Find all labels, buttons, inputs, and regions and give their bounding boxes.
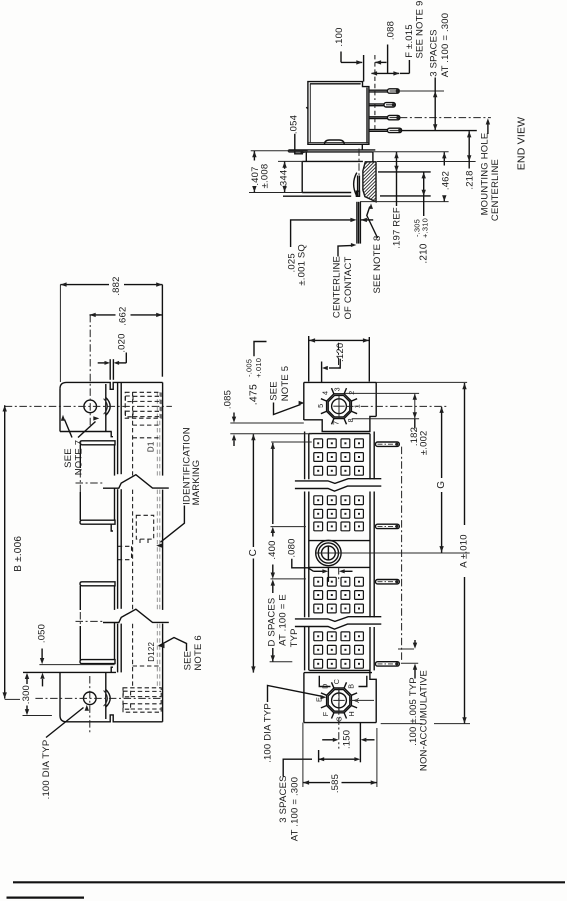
key centerline vertical (top key) <box>338 343 340 368</box>
identification marking hidden box <box>136 515 153 539</box>
side view mating face <box>162 382 164 476</box>
flange near extension <box>278 160 302 162</box>
svg-text:D122: D122 <box>147 641 156 661</box>
key centerline to right <box>346 405 447 407</box>
svg-text:.344: .344 <box>279 170 290 189</box>
svg-text:.120: .120 <box>335 343 346 362</box>
dim D SPACES AT .100 = E TYP <box>272 585 274 594</box>
pin tip centerline vertical <box>401 447 403 662</box>
dim .085 <box>230 422 303 424</box>
dim 3 SPACES AT .100 = .300 (front) <box>283 759 312 776</box>
svg-text:3: 3 <box>333 387 342 391</box>
svg-text:AT .100 = E: AT .100 = E <box>278 594 289 646</box>
svg-text:AT .100 = .300: AT .100 = .300 <box>289 777 300 842</box>
svg-text:MOUNTING HOLE: MOUNTING HOLE <box>480 133 491 216</box>
svg-text:2: 2 <box>347 390 356 394</box>
top cavity hidden outline D1 <box>125 392 161 418</box>
dim .197 REF <box>378 171 431 173</box>
svg-text:AT .100 = .300: AT .100 = .300 <box>440 13 451 78</box>
svg-text:B ±.006: B ±.006 <box>13 536 24 572</box>
hidden cavity lines full length <box>132 392 134 476</box>
svg-text:NOTE 7: NOTE 7 <box>74 440 85 476</box>
middle hidden hole box <box>118 546 132 559</box>
contact bulge bottom ear <box>106 689 111 707</box>
center hole section <box>309 540 370 542</box>
top ear step <box>111 432 113 437</box>
svg-text:7: 7 <box>331 421 340 425</box>
svg-text:.020: .020 <box>117 333 128 352</box>
svg-text:F: F <box>321 711 330 716</box>
dim .210 -.305 +.310 <box>380 195 431 197</box>
front view grid section walls <box>304 432 306 480</box>
dim B +-.006 <box>4 405 6 698</box>
front view bottom grid end <box>309 669 370 671</box>
svg-text:.050: .050 <box>36 624 47 643</box>
svg-text:.210: .210 <box>418 243 429 264</box>
svg-text:±.008: ±.008 <box>259 164 270 189</box>
bottom end extension to dim A <box>381 723 423 725</box>
svg-text:F ±.015: F ±.015 <box>404 24 415 58</box>
svg-text:.400: .400 <box>267 540 278 559</box>
body side tick <box>306 107 308 108</box>
pin centerline at break 1 <box>76 482 121 484</box>
top end extension to dim A <box>376 381 467 383</box>
svg-text:4: 4 <box>320 391 329 395</box>
side view break 1 <box>103 476 170 488</box>
identification leader <box>161 506 185 543</box>
svg-text:TYP: TYP <box>289 628 300 647</box>
svg-text:.054: .054 <box>289 115 300 134</box>
pin centerline at break 2 <box>76 620 121 622</box>
svg-text:+.310: +.310 <box>420 218 429 238</box>
dim .662 <box>90 314 116 316</box>
svg-text:H: H <box>347 711 356 716</box>
side view break 2 <box>103 610 170 622</box>
hole vertical centerline (top) <box>89 315 91 428</box>
svg-text:NOTE 5: NOTE 5 <box>280 366 291 402</box>
dim .344 flange thickness <box>284 162 286 169</box>
svg-text:NON-ACCUMULATIVE: NON-ACCUMULATIVE <box>418 670 429 771</box>
front view bottom key section outline <box>303 673 305 723</box>
column 4 extension <box>359 723 361 763</box>
svg-text:3 SPACES: 3 SPACES <box>278 775 289 822</box>
mounting hole horizontal centerline (bottom) <box>35 697 162 699</box>
see note 6 arrow <box>159 644 165 648</box>
contact grid <box>314 439 323 448</box>
svg-text:.662: .662 <box>118 307 129 326</box>
dim .882 <box>59 285 61 382</box>
bottom cavity hidden outline <box>123 688 161 712</box>
label CENTERLINE OF CONTACT <box>338 245 353 256</box>
cavity D122 hidden box <box>133 665 159 667</box>
svg-text:C: C <box>248 549 259 556</box>
svg-text:.088: .088 <box>386 21 397 40</box>
svg-text:.218: .218 <box>464 170 475 189</box>
keying octagon bottom <box>327 688 352 713</box>
hole vertical centerline below <box>327 546 329 559</box>
end view pin row 1 <box>369 89 388 91</box>
svg-text:B: B <box>346 684 355 689</box>
side view bottom ear <box>60 715 163 722</box>
dim A +-.010 <box>464 383 466 525</box>
svg-text:SEE: SEE <box>269 381 280 401</box>
keying octagon top (SEE NOTE 5 key) <box>327 394 352 419</box>
row 1 extension <box>271 441 312 443</box>
svg-text:SEE: SEE <box>63 448 74 468</box>
svg-text:.080: .080 <box>287 538 298 557</box>
front view key section outline (top) <box>303 382 305 420</box>
hole centerline extension right <box>315 552 469 554</box>
svg-text:D SPACES: D SPACES <box>266 598 277 647</box>
mounting flange (end view) <box>302 161 363 192</box>
svg-text:.197 REF: .197 REF <box>391 207 402 249</box>
svg-text:.585: .585 <box>330 774 341 793</box>
footer rule short <box>7 896 85 898</box>
end view pin row 3 <box>369 116 388 118</box>
svg-text:-.005: -.005 <box>244 359 253 377</box>
mounting hole horizontal centerline (top) <box>5 405 172 407</box>
end view pin row 4 <box>369 129 388 131</box>
dim .120 <box>321 362 323 383</box>
dim .100 at end view top <box>363 55 365 82</box>
front view long pin 1 <box>376 442 400 446</box>
key spokes bottom <box>352 706 358 708</box>
svg-text:END VIEW: END VIEW <box>516 117 528 171</box>
front view break 1 <box>295 481 381 486</box>
dim .050 <box>39 664 114 666</box>
dim D SPACES chain <box>272 443 274 524</box>
svg-text:3 SPACES: 3 SPACES <box>429 29 440 76</box>
svg-text:.150: .150 <box>342 730 353 749</box>
dim 3 SPACES AT .100 = .300 (end view) <box>434 78 436 131</box>
svg-text:D: D <box>320 684 329 689</box>
dim .150 <box>322 739 333 741</box>
svg-text:NOTE 6: NOTE 6 <box>193 635 204 671</box>
svg-text:.462: .462 <box>440 171 451 190</box>
wire wrap tail (end view) <box>356 202 358 244</box>
dim .300 <box>23 715 52 717</box>
flange far extension for dim .407/.344 <box>249 192 302 194</box>
dim .080 offset <box>314 570 323 572</box>
end view body <box>308 82 369 145</box>
svg-text:±.001 SQ: ±.001 SQ <box>296 244 307 286</box>
bottom key pocket <box>319 676 330 687</box>
svg-text:SEE NOTE 9: SEE NOTE 9 <box>415 1 426 59</box>
pin 3 mounting hole centerline <box>400 117 491 119</box>
dim .020 slot <box>109 359 111 380</box>
svg-text:CENTERLINE: CENTERLINE <box>332 256 343 318</box>
front view top end edge <box>304 381 376 383</box>
dim C <box>252 434 254 547</box>
dim .100 +-.005 TYP NON-ACCUMULATIVE <box>398 648 414 650</box>
side view top end edge <box>60 382 163 389</box>
polarizing bump on body <box>325 140 345 144</box>
cavity D1 hidden box <box>133 424 159 426</box>
key spokes top <box>352 411 358 413</box>
dim .407 +-.008 <box>251 150 308 152</box>
side view body walls <box>117 382 119 474</box>
flange lower lip line <box>283 195 351 197</box>
dim .462 <box>373 151 449 153</box>
front view long pin 3 <box>376 580 400 584</box>
contact section hatch <box>363 162 376 202</box>
column 1 extension <box>318 750 320 762</box>
svg-text:SEE NOTE 8: SEE NOTE 8 <box>372 236 383 294</box>
svg-text:G: G <box>436 481 447 489</box>
svg-text:C: C <box>332 679 341 684</box>
svg-text:.100 DIA TYP: .100 DIA TYP <box>262 703 273 763</box>
bottom key centerline <box>338 688 340 749</box>
label MOUNTING HOLE CENTERLINE <box>487 122 489 135</box>
end view pin row 2 <box>369 103 384 105</box>
pin 1 extension line <box>399 90 444 92</box>
contact bulge top ear <box>106 397 111 415</box>
dim .400 <box>271 526 306 528</box>
svg-text:.100 ±.005 TYP: .100 ±.005 TYP <box>408 677 419 746</box>
contact spring in section <box>354 173 357 196</box>
dim .025 +-.001 SQ <box>291 220 351 247</box>
base plane strip <box>289 150 376 152</box>
svg-text:.882: .882 <box>111 276 122 295</box>
svg-text:A ±.010: A ±.010 <box>459 534 470 568</box>
dim .218 <box>377 161 476 163</box>
svg-text:.085: .085 <box>222 390 233 409</box>
svg-text:OF CONTACT: OF CONTACT <box>343 256 354 319</box>
step below ear <box>111 524 113 531</box>
dim .182 +-.002 <box>345 392 419 394</box>
svg-text:SEE: SEE <box>182 651 193 671</box>
svg-text:.475: .475 <box>248 384 260 405</box>
side view top ear <box>59 389 61 432</box>
svg-text:CENTERLINE: CENTERLINE <box>490 159 501 221</box>
pin 4 extension line <box>402 130 477 132</box>
dim .585 <box>302 723 304 787</box>
svg-text:.100: .100 <box>334 27 345 46</box>
svg-text:MARKING: MARKING <box>191 460 202 506</box>
horizontal CL stub bottom key <box>351 699 375 701</box>
svg-text:.300: .300 <box>21 685 32 704</box>
dim .088 / F +-.015 line <box>372 72 400 74</box>
dim G <box>441 407 443 478</box>
svg-text:±.002: ±.002 <box>419 430 430 455</box>
svg-text:5: 5 <box>316 404 325 408</box>
front view long pin 4 <box>376 662 400 666</box>
pin row block 2 (side view) <box>80 582 115 586</box>
svg-text:+.010: +.010 <box>254 358 263 378</box>
dim .475 -.005 +.010 <box>308 336 310 382</box>
label SEE NOTE 8 <box>367 207 378 239</box>
label F +-.015 SEE NOTE 9 <box>408 60 410 73</box>
front view break 2 <box>295 619 381 624</box>
footer rule long <box>13 881 565 883</box>
hole vertical centerline (bottom) <box>89 676 91 733</box>
front view long pin 2 <box>376 524 400 528</box>
svg-text:.100 DIA TYP: .100 DIA TYP <box>41 740 52 800</box>
top ear mounting hole <box>84 400 97 413</box>
pin row block 1 (side view) <box>80 441 115 445</box>
svg-text:D1: D1 <box>147 441 156 452</box>
